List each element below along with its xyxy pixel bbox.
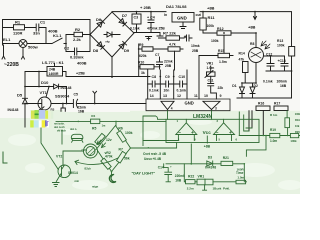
svg-text:VT1: VT1 [40,90,48,95]
svg-text:IN4148: IN4148 [205,166,216,170]
svg-text:IN4148: IN4148 [8,108,19,112]
svg-text:out: out [196,13,202,17]
svg-text:R21: R21 [223,156,229,160]
svg-text:Uosv.+0.4B: Uosv.+0.4B [144,157,162,161]
svg-text:R1: R1 [15,20,21,25]
svg-text:0.1mk: 0.1mk [149,89,159,93]
svg-text:GND: GND [177,16,187,21]
svg-text:1.5m: 1.5m [219,60,227,64]
svg-text:VT2: VT2 [56,155,62,159]
svg-text:Cvet rezh -5 4B: Cvet rezh -5 4B [143,152,167,156]
svg-text:In: In [164,13,167,17]
svg-text:0.1mk: 0.1mk [263,79,273,83]
svg-text:1.0m: 1.0m [270,139,277,143]
svg-text:10: 10 [204,94,208,98]
svg-text:500w: 500w [28,44,39,49]
svg-text:C3: C3 [134,16,139,20]
svg-text:0.1mk: 0.1mk [177,89,187,93]
svg-text:D7: D7 [122,13,128,18]
svg-text:R8: R8 [250,42,254,46]
svg-text:4: 4 [171,106,173,110]
svg-text:C2: C2 [64,46,70,51]
svg-text:16B: 16B [280,84,287,88]
svg-text:R6: R6 [118,127,122,131]
svg-text:R16: R16 [258,102,264,106]
svg-text:R22: R22 [188,174,194,178]
svg-text:110R: 110R [13,31,22,36]
svg-text:S9014: S9014 [68,171,78,175]
svg-text:D10: D10 [41,80,49,85]
svg-text:100k: 100k [277,43,285,47]
svg-text:GND: GND [185,101,194,106]
svg-text:C10: C10 [179,75,186,79]
svg-text:SS9014: SS9014 [55,94,70,99]
svg-text:R20: R20 [295,130,300,134]
svg-text:C12: C12 [266,52,272,56]
svg-text:Vcc: Vcc [203,130,212,135]
svg-text:min: min [75,179,80,183]
svg-text:R11: R11 [208,15,216,20]
svg-text:12: 12 [177,94,181,98]
svg-text:10k: 10k [295,124,300,128]
svg-text:R4: R4 [91,114,95,118]
svg-text:nkp: nkp [106,41,111,44]
svg-text:47k: 47k [239,58,245,62]
svg-text:12v: 12v [106,138,112,142]
svg-text:100k: 100k [290,139,297,143]
svg-text:IN4148: IN4148 [61,86,72,90]
svg-text:R15: R15 [218,49,224,53]
svg-text:1400R: 1400R [49,72,60,76]
svg-text:+8B: +8B [207,6,215,11]
svg-text:+: + [170,164,172,168]
svg-text:R19: R19 [270,128,276,132]
svg-text:DA1 78L08: DA1 78L08 [166,4,187,9]
svg-text:D1: D1 [232,84,236,88]
svg-text:R9: R9 [139,43,143,47]
svg-text:C7: C7 [155,53,159,57]
svg-text:VR1: VR1 [207,62,214,66]
svg-text:R12: R12 [217,27,224,31]
svg-text:R19: R19 [295,118,300,122]
svg-text:mign: mign [92,184,99,188]
svg-text:+25B: +25B [76,72,85,76]
svg-text:3: 3 [215,106,217,110]
svg-text:+ 25B: + 25B [140,5,151,10]
svg-text:16B: 16B [175,179,182,183]
svg-text:LM324N: LM324N [193,114,213,120]
svg-text:1.0m: 1.0m [207,66,215,70]
svg-text:C14: C14 [158,165,164,169]
svg-text:100k: 100k [125,131,133,135]
svg-text:14: 14 [150,94,154,98]
svg-text:R3: R3 [51,108,55,112]
svg-text:100k: 100k [295,112,300,116]
svg-text:R7: R7 [119,148,123,152]
svg-text:R2: R2 [75,27,81,32]
svg-text:+8B: +8B [248,25,256,30]
svg-text:D9: D9 [124,48,130,53]
svg-text:D6: D6 [96,17,102,22]
svg-text:10mk: 10mk [191,44,200,48]
svg-text:+C13: +C13 [278,59,286,63]
svg-text:C8: C8 [152,75,157,79]
svg-text:2.2m: 2.2m [187,187,194,191]
svg-text:K1.1: K1.1 [53,33,62,38]
svg-text:1Bcek: 1Bcek [213,187,222,191]
svg-text:~220B: ~220B [4,62,19,68]
svg-text:16B: 16B [78,109,85,113]
svg-text:22k: 22k [218,86,224,90]
svg-text:C9: C9 [165,75,170,79]
svg-text:C1: C1 [40,20,46,25]
svg-text:D8: D8 [93,48,99,53]
svg-text:EL1: EL1 [3,37,11,42]
svg-text:R 1m: R 1m [270,113,278,117]
svg-text:VR1: VR1 [198,174,205,178]
svg-text:470k: 470k [105,154,113,158]
svg-text:100k: 100k [211,39,219,43]
svg-text:0.1mk: 0.1mk [130,27,140,31]
svg-text:D3: D3 [208,155,212,159]
svg-text:R17: R17 [274,102,280,106]
svg-text:22mk: 22mk [164,60,173,64]
svg-text:Pvkl.: Pvkl. [223,187,230,191]
svg-text:vkl rezh: vkl rezh [57,129,66,132]
svg-text:R10: R10 [138,61,144,65]
svg-text:B3ch: B3ch [85,167,92,171]
svg-text:den n.: den n. [70,128,77,131]
svg-text:CDS: CDS [82,148,88,152]
svg-text:3k: 3k [141,71,145,75]
svg-text:C5: C5 [74,93,78,97]
svg-text:D2: D2 [254,84,258,88]
svg-text:25B: 25B [165,64,172,68]
svg-text:25B: 25B [192,49,199,53]
svg-text:0.33mk: 0.33mk [70,55,84,60]
svg-text:R5: R5 [92,127,96,131]
svg-text:R14: R14 [239,51,245,55]
svg-text:56k: 56k [124,156,130,160]
svg-text:11: 11 [194,94,198,98]
svg-text:4.7k: 4.7k [169,43,176,47]
svg-text:D5: D5 [17,93,23,98]
svg-text:+ C4: + C4 [147,16,155,20]
svg-text:R7 22k: R7 22k [163,31,177,36]
svg-text:2.2k: 2.2k [73,37,82,42]
svg-text:C11: C11 [208,79,214,83]
svg-text:100k: 100k [207,24,215,28]
svg-text:9: 9 [220,94,222,98]
svg-text:10n: 10n [164,89,170,93]
svg-text:+8B: +8B [204,145,211,149]
svg-text:220mk: 220mk [175,174,185,178]
svg-text:1.0m: 1.0m [237,176,244,180]
svg-text:620k: 620k [139,54,147,58]
svg-text:LS-771 : K1: LS-771 : K1 [42,60,65,65]
svg-text:"DAY LIGHT": "DAY LIGHT" [132,172,156,176]
svg-text:100mk: 100mk [277,79,288,83]
svg-text:33n: 33n [33,31,40,36]
svg-text:13: 13 [163,94,167,98]
svg-text:400B: 400B [77,61,87,66]
svg-text:Time: Time [236,171,244,175]
